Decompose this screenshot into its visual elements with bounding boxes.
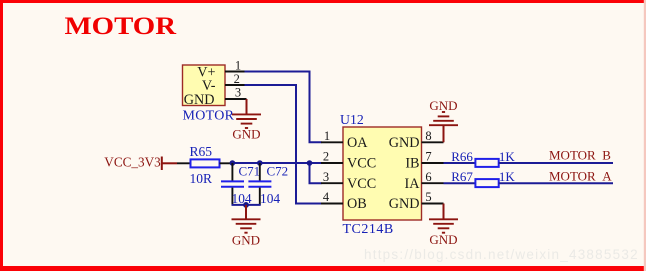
U12 pin 1 (OA) <box>321 129 343 143</box>
svg-text:1: 1 <box>235 59 241 73</box>
resistor R66 <box>451 149 515 167</box>
capacitor C72 <box>248 163 288 206</box>
junction at R65/C71 node <box>230 160 236 166</box>
svg-text:3: 3 <box>323 170 329 184</box>
wire R65 to VCC node <box>220 162 233 164</box>
svg-text:MOTOR: MOTOR <box>65 13 177 40</box>
ground under connector pin 3 <box>232 99 261 142</box>
wire VCC_3V3 to R65 <box>177 162 191 164</box>
svg-text:R65: R65 <box>190 144 213 159</box>
svg-text:VCC: VCC <box>347 156 376 172</box>
svg-text:10R: 10R <box>190 171 213 186</box>
svg-text:U12: U12 <box>340 112 364 127</box>
IC U12 TC214B body <box>340 112 422 237</box>
svg-text:C71: C71 <box>239 164 261 179</box>
wire V- to OB <box>245 85 322 204</box>
junction at ground node <box>243 202 249 208</box>
connector pin 1 (V+) <box>225 59 245 73</box>
U12 pin 4 (OB) <box>321 190 343 204</box>
svg-text:TC214B: TC214B <box>343 222 394 237</box>
svg-text:4: 4 <box>323 190 330 204</box>
svg-text:1: 1 <box>324 129 330 143</box>
wire R66 to MOTOR_B <box>499 162 613 164</box>
wire VCC bus to pin 2 <box>232 162 321 164</box>
junction at VCC branch <box>307 160 313 166</box>
junction at C72 node <box>257 160 263 166</box>
U12 pin 8 (GND) <box>422 129 444 143</box>
ground above U12 pin 8 <box>429 98 458 142</box>
connector MOTOR body <box>183 64 235 123</box>
svg-text:2: 2 <box>234 72 240 86</box>
svg-text:R66: R66 <box>451 149 473 164</box>
svg-text:GND: GND <box>184 92 215 108</box>
svg-text:MOTOR: MOTOR <box>183 109 235 124</box>
resistor R67 <box>451 169 515 187</box>
svg-text:GND: GND <box>389 135 420 151</box>
svg-text:GND: GND <box>232 127 260 142</box>
svg-text:https://blog.csdn.net/weixin_4: https://blog.csdn.net/weixin_43885532 <box>364 247 639 262</box>
svg-text:VCC_3V3: VCC_3V3 <box>104 155 161 170</box>
svg-text:3: 3 <box>235 86 241 100</box>
svg-text:104: 104 <box>260 191 280 206</box>
U12 pin 5 (GND) <box>422 190 444 204</box>
svg-text:1K: 1K <box>499 169 516 184</box>
svg-text:GND: GND <box>232 233 260 248</box>
resistor R65 <box>190 144 220 186</box>
svg-text:IA: IA <box>405 176 421 192</box>
svg-text:VCC: VCC <box>347 176 376 192</box>
svg-text:8: 8 <box>425 129 431 143</box>
svg-text:104: 104 <box>232 191 252 206</box>
svg-text:GND: GND <box>389 196 420 212</box>
svg-text:MOTOR B: MOTOR B <box>549 147 611 162</box>
wire joining capacitor bottoms <box>232 204 261 206</box>
svg-text:2: 2 <box>323 150 329 164</box>
svg-text:OB: OB <box>347 196 367 212</box>
wire VCC branch to pin 3 <box>310 163 322 183</box>
capacitor C71 <box>221 163 260 206</box>
U12 pin 7 (IB) <box>422 150 444 164</box>
wire R67 to MOTOR_A <box>499 182 613 184</box>
connector pin 2 (V-) <box>225 72 245 86</box>
net VCC_3V3 port <box>104 155 177 170</box>
connector pin 3 (GND) <box>225 86 247 100</box>
svg-text:GND: GND <box>429 232 457 247</box>
svg-text:1K: 1K <box>499 149 516 164</box>
U12 pin 6 (IA) <box>422 170 444 184</box>
wire pin 7 to R66 <box>444 162 476 164</box>
wire pin 6 to R67 <box>444 182 476 184</box>
U12 pin 3 (VCC) <box>321 170 343 184</box>
U12 pin 2 (VCC) <box>321 150 343 164</box>
svg-text:GND: GND <box>429 98 457 113</box>
svg-text:R67: R67 <box>451 169 473 184</box>
svg-text:OA: OA <box>347 135 368 151</box>
svg-text:C72: C72 <box>267 164 289 179</box>
ground under capacitors <box>232 205 261 248</box>
svg-text:IB: IB <box>405 156 419 172</box>
wire V+ to OA <box>245 72 322 143</box>
ground under U12 pin 5 <box>429 204 458 248</box>
svg-text:7: 7 <box>425 150 431 164</box>
svg-text:5: 5 <box>425 190 431 204</box>
svg-text:MOTOR A: MOTOR A <box>549 169 612 184</box>
svg-text:6: 6 <box>425 170 431 184</box>
